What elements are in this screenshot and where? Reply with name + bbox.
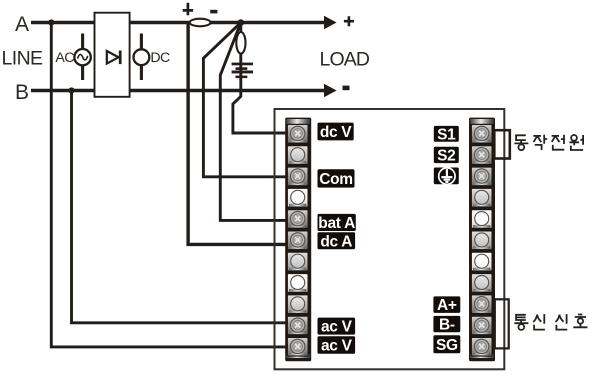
svg-text:SG: SG <box>436 337 458 354</box>
svg-text:ac V: ac V <box>321 319 353 336</box>
svg-text:DC: DC <box>150 50 170 66</box>
svg-text:dc A: dc A <box>320 233 352 250</box>
svg-text:dc V: dc V <box>320 124 352 141</box>
svg-text:S1: S1 <box>437 126 456 143</box>
svg-text:B: B <box>15 81 29 104</box>
svg-text:LOAD: LOAD <box>320 49 370 71</box>
svg-text:bat A: bat A <box>318 215 355 232</box>
svg-text:AC: AC <box>55 50 74 66</box>
svg-text:Com: Com <box>319 171 353 188</box>
svg-text:S2: S2 <box>437 148 455 165</box>
svg-text:ac V: ac V <box>321 338 353 355</box>
svg-text:LINE: LINE <box>2 48 44 70</box>
svg-text:A: A <box>15 13 29 36</box>
svg-text:A+: A+ <box>437 297 457 314</box>
svg-text:B-: B- <box>439 317 455 334</box>
